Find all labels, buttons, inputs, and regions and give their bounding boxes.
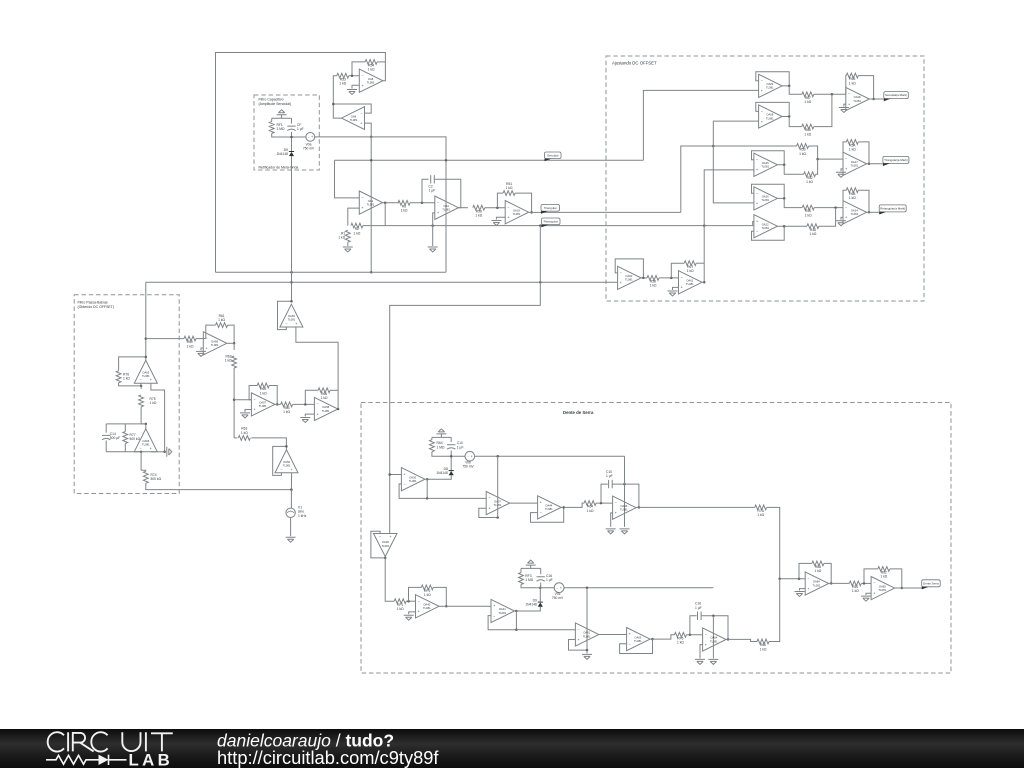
wire OA4 output xyxy=(458,207,468,209)
wire to OA1 inverting input xyxy=(335,160,360,198)
svg-text:OA41: OA41 xyxy=(499,607,506,611)
svg-text:+: + xyxy=(150,447,152,451)
wire R64b to OA58 xyxy=(293,403,315,405)
wire R61 right down xyxy=(228,325,235,343)
junction OA41 output xyxy=(515,610,518,613)
wire OA65 minus stub xyxy=(140,383,142,386)
svg-text:1 kΩ: 1 kΩ xyxy=(424,593,431,597)
svg-text:1N4148: 1N4148 xyxy=(436,471,448,475)
wire OA1 output down to retangular net xyxy=(384,203,386,226)
wire R1 to ground xyxy=(347,242,349,246)
junction main vertical / DC bus xyxy=(290,281,293,284)
op-amp OA24 xyxy=(843,201,867,224)
svg-text:+: + xyxy=(761,120,763,124)
op-amp OA68 xyxy=(203,332,227,355)
wire tap down to OA26 plus xyxy=(713,146,754,203)
svg-text:TL081: TL081 xyxy=(288,318,296,322)
svg-text:−: − xyxy=(578,628,580,632)
svg-text:TL081: TL081 xyxy=(381,544,389,548)
svg-text:TL081: TL081 xyxy=(409,479,417,483)
svg-text:+: + xyxy=(560,586,562,590)
wire R77 top stub xyxy=(124,424,126,432)
resistor R77 xyxy=(123,432,141,444)
wire R54 left to OA8 inverting input xyxy=(352,62,365,76)
wire to R7A xyxy=(639,506,755,508)
junction plus rail bottom xyxy=(163,451,166,454)
wire OA61 output stub xyxy=(702,281,704,283)
wire OA27 plus to ground xyxy=(841,169,843,171)
op-amp OA19 xyxy=(505,201,528,224)
stub xyxy=(636,506,639,508)
diode D9 xyxy=(525,598,543,606)
wire V0b rail down to ground xyxy=(624,456,626,527)
wire R61 left xyxy=(206,325,216,339)
junction OA58 output xyxy=(337,408,340,411)
svg-text:-: - xyxy=(308,135,309,139)
wire OA24 output to flag xyxy=(867,211,880,213)
stub xyxy=(540,568,542,574)
wire OA22 output to R48 xyxy=(784,225,807,227)
svg-text:500 kΩ: 500 kΩ xyxy=(130,437,141,441)
wire OA56 feedback loop xyxy=(273,446,287,475)
svg-text:OA28: OA28 xyxy=(854,95,861,99)
svg-text:TL081: TL081 xyxy=(850,164,858,168)
svg-text:Dente de Serra: Dente de Serra xyxy=(563,410,594,415)
svg-text:−: − xyxy=(488,496,490,500)
wire OA28 output to flag xyxy=(869,98,884,100)
svg-text:−: − xyxy=(404,483,406,487)
junction OA08 output xyxy=(384,557,387,560)
wire to R63 xyxy=(234,437,237,439)
junction OA58 input xyxy=(304,403,307,406)
op-amp OA4 xyxy=(435,196,459,219)
svg-text:+: + xyxy=(845,216,847,220)
title Filtro Passa-Baixas xyxy=(78,300,115,308)
title Filtro Capacitivo xyxy=(259,97,292,105)
svg-text:1 kΩ: 1 kΩ xyxy=(757,513,764,517)
resistor R60 xyxy=(184,336,196,348)
svg-text:Filtro Passa-Baixas: Filtro Passa-Baixas xyxy=(78,300,108,304)
wire OA20 buffer loop xyxy=(399,479,427,498)
svg-text:OA09: OA09 xyxy=(766,113,773,117)
svg-text:1 kΩ: 1 kΩ xyxy=(283,410,290,414)
svg-text:OA40: OA40 xyxy=(423,603,430,607)
diode D8 xyxy=(436,467,454,475)
wire OA41 buffer loop xyxy=(488,611,516,630)
svg-text:1N4148: 1N4148 xyxy=(525,603,537,607)
net flag Senoidal xyxy=(545,152,562,161)
svg-text:http://circuitlab.com/c9ty89f: http://circuitlab.com/c9ty89f xyxy=(217,747,439,768)
junction OA69 apex xyxy=(290,300,293,303)
wire R62b right down xyxy=(890,569,902,588)
op-amp OA63 xyxy=(627,628,651,651)
wire to OA61b minus xyxy=(516,629,575,631)
svg-text:TL081: TL081 xyxy=(283,463,291,467)
capacitor C10 xyxy=(606,470,613,488)
wire OA41 output to D9b xyxy=(516,607,540,611)
svg-text:TL081: TL081 xyxy=(761,165,769,169)
svg-text:OA61: OA61 xyxy=(686,279,693,283)
ground at OA58 xyxy=(300,418,310,423)
svg-text:+: + xyxy=(620,281,622,285)
wire R65 right down xyxy=(858,76,873,99)
wire OA68 output stub xyxy=(227,342,234,344)
capacitor C10 xyxy=(447,441,463,449)
resistor R76 xyxy=(116,371,130,383)
svg-text:OA63: OA63 xyxy=(634,635,641,639)
wire filter output to V1 node xyxy=(146,483,292,489)
resistor R51 xyxy=(503,182,515,196)
junction OA20 output xyxy=(426,478,429,481)
junction OA19 output xyxy=(530,211,533,214)
svg-text:1 kΩ: 1 kΩ xyxy=(187,344,194,348)
junction mixer input xyxy=(778,578,781,581)
ground at OA6A xyxy=(795,592,805,597)
junction OA56 apex xyxy=(285,445,288,448)
svg-text:Dente Serra: Dente Serra xyxy=(923,581,939,585)
op-amp OA57 xyxy=(251,393,275,416)
junction on retangular rail xyxy=(388,473,391,476)
svg-text:OA61: OA61 xyxy=(583,631,590,635)
svg-text:−: − xyxy=(507,205,509,209)
wire retangular riser down to OA61 xyxy=(703,226,705,283)
junction senoidal tap 2 xyxy=(445,159,448,162)
resistor R2 xyxy=(351,223,363,235)
svg-text:−: − xyxy=(361,74,363,78)
net flag Triangular(a Mark) xyxy=(883,156,909,166)
stub xyxy=(515,610,517,612)
op-amp OA60 xyxy=(618,266,642,289)
junction filter tap to R60 xyxy=(145,337,148,340)
svg-text:750 mV: 750 mV xyxy=(303,147,315,151)
junction OA65 loop top xyxy=(145,356,148,359)
svg-text:OA9: OA9 xyxy=(351,114,357,118)
net flag Senoidal(a Mark) xyxy=(884,92,909,102)
dashed box Ajustando DC OFFSET xyxy=(606,56,924,301)
resistor R50 xyxy=(802,205,814,217)
junction OA9 loop top xyxy=(332,103,335,106)
op-amp OA56 xyxy=(275,450,298,473)
svg-text:TL081: TL081 xyxy=(813,583,821,587)
junction OA61 feedback xyxy=(670,277,673,280)
wire ground stem xyxy=(281,115,283,119)
resistor R64 xyxy=(430,440,445,452)
svg-text:OA24: OA24 xyxy=(851,209,858,213)
wire V0c rail to ground xyxy=(712,616,714,659)
svg-text:1 kΩ: 1 kΩ xyxy=(353,231,360,235)
svg-text:Triangular(a Mark): Triangular(a Mark) xyxy=(884,158,908,162)
wire R67b left xyxy=(671,263,684,278)
ground 1 at OA46 xyxy=(606,529,616,534)
svg-text:OA29: OA29 xyxy=(766,82,773,86)
svg-text:−: − xyxy=(317,402,319,406)
wire R60 to OA68 xyxy=(196,338,203,340)
wire OA20 to OA07 minus xyxy=(427,497,486,499)
svg-text:+: + xyxy=(756,219,758,223)
wire RF6 to OA64b xyxy=(686,634,702,636)
junction triangular tap xyxy=(712,145,715,148)
wire OA64b output to R66b xyxy=(726,639,757,641)
wire R77 bottom stub xyxy=(124,444,126,452)
wire OA24 plus to ground xyxy=(841,217,843,219)
svg-text:1 kΩ: 1 kΩ xyxy=(849,196,856,200)
resistor R54 xyxy=(365,60,377,72)
svg-text:+: + xyxy=(150,378,152,382)
wire Retangular net xyxy=(363,222,754,226)
capacitor C16 xyxy=(695,602,702,620)
op-amp OA61 xyxy=(679,271,703,294)
svg-text:1 kΩ: 1 kΩ xyxy=(321,396,328,400)
wire RF1 top stub xyxy=(271,118,273,121)
junction OA44 output xyxy=(562,506,565,509)
svg-text:1 kHz: 1 kHz xyxy=(298,514,307,518)
svg-text:−: − xyxy=(620,271,622,275)
op-amp OA41 xyxy=(491,599,515,622)
wire OA22 buffer loop xyxy=(752,226,785,240)
wire OA57 output xyxy=(275,403,281,405)
wire OA08 buffer loop xyxy=(371,531,385,558)
svg-text:OA25: OA25 xyxy=(762,161,769,165)
svg-text:1N4148: 1N4148 xyxy=(276,152,288,156)
wire OA24 feedback left xyxy=(843,190,846,207)
resistor R67 xyxy=(684,261,696,273)
svg-text:1 kΩ: 1 kΩ xyxy=(849,81,856,85)
svg-text:TL081: TL081 xyxy=(710,639,718,643)
wire R63 to OA56 apex xyxy=(251,438,286,450)
op-amp OA08 xyxy=(374,534,398,557)
svg-text:(Obtendo DC OFFSET): (Obtendo DC OFFSET) xyxy=(78,305,115,309)
wire R6A left xyxy=(799,563,812,578)
wire R53 left down to OA9 loop xyxy=(333,76,337,104)
svg-text:TL081: TL081 xyxy=(583,634,591,638)
svg-text:OA6A: OA6A xyxy=(813,580,820,584)
svg-text:TL081: TL081 xyxy=(142,442,150,446)
svg-text:Retificador de Meia-Onda: Retificador de Meia-Onda xyxy=(259,165,299,169)
ground at OA19 xyxy=(491,221,501,226)
logo resistor-diode symbol xyxy=(46,755,127,765)
wire R52 up to sum node xyxy=(816,159,818,174)
svg-text:TL081: TL081 xyxy=(853,99,861,103)
svg-text:−: − xyxy=(418,599,420,603)
svg-text:+: + xyxy=(488,506,490,510)
op-amp OA66 xyxy=(134,429,157,452)
ground at OA65b xyxy=(861,596,871,601)
wire R58 to OA19 xyxy=(485,207,505,209)
svg-text:1 kΩ: 1 kΩ xyxy=(150,401,157,405)
svg-text:1 kΩ: 1 kΩ xyxy=(260,391,267,395)
svg-text:TL081: TL081 xyxy=(259,404,267,408)
svg-text:OA58: OA58 xyxy=(322,405,329,409)
net flag Triangular xyxy=(541,205,560,214)
resistor R66 xyxy=(318,388,330,400)
resistor R7A xyxy=(755,505,767,517)
resistor R52 xyxy=(804,172,816,184)
junction loop to bottom chain xyxy=(515,629,518,632)
svg-text:1 kΩ: 1 kΩ xyxy=(852,589,859,593)
svg-text:OA4: OA4 xyxy=(443,204,449,208)
wire OA44 to R64c xyxy=(564,503,584,507)
wire R76 loop bottom xyxy=(119,383,142,386)
junction OA40 output xyxy=(445,605,448,608)
source V0a xyxy=(303,133,315,151)
stub xyxy=(384,557,386,558)
wire OA27 feedback left xyxy=(843,142,846,159)
junction OA61 output xyxy=(703,281,706,284)
wire C10d right down xyxy=(701,616,728,640)
op-amp OA44 xyxy=(538,496,562,519)
op-amp OA61 xyxy=(575,623,599,646)
wire OA26 buffer loop xyxy=(752,184,785,198)
wire R75 bottom xyxy=(141,407,146,424)
resistor R58 xyxy=(647,276,659,288)
svg-text:1 kΩ: 1 kΩ xyxy=(338,236,345,240)
svg-text:Filtro Capacitivo: Filtro Capacitivo xyxy=(259,97,284,101)
wire OA27 output to flag xyxy=(867,163,883,165)
svg-text:1 kΩ: 1 kΩ xyxy=(799,152,806,156)
wire OA07 to OA44 xyxy=(510,502,538,504)
svg-text:1 kΩ: 1 kΩ xyxy=(218,318,225,322)
wire OA9 plus rail down to bus xyxy=(370,137,372,272)
svg-text:−: − xyxy=(280,468,282,472)
op-amp OA6A xyxy=(805,572,829,595)
wire OA28 plus to ground xyxy=(844,104,846,106)
junction DC-offset riser xyxy=(703,224,706,227)
wire D8 to OA20 output xyxy=(427,475,451,479)
resistor R65 xyxy=(846,73,858,85)
junction V0b node xyxy=(450,455,453,458)
ground at OA24 xyxy=(836,221,846,226)
svg-text:TL081: TL081 xyxy=(423,606,431,610)
wire OA40 to OA41 xyxy=(446,605,491,607)
svg-text:−: − xyxy=(848,92,850,96)
resistor R62 xyxy=(878,567,890,579)
wire OA4 plus down to ground xyxy=(433,213,435,246)
wire OA66 apex up xyxy=(145,424,147,429)
svg-text:−: − xyxy=(140,378,142,382)
wire R76 loop top xyxy=(119,357,146,371)
svg-text:1 µF: 1 µF xyxy=(546,578,553,582)
wire OA40 plus to ground xyxy=(409,612,416,614)
op-amp OA22 xyxy=(754,215,778,238)
wire OA8 feedback loop xyxy=(216,53,386,273)
op-amp OA20 xyxy=(401,468,425,491)
wire OA8 plus to ground xyxy=(352,85,359,88)
wire R66 up to sum node xyxy=(814,94,832,126)
svg-text:1 kΩ: 1 kΩ xyxy=(650,284,657,288)
op-amp OA26 xyxy=(754,187,778,210)
svg-text:+: + xyxy=(360,121,362,125)
svg-text:TL081: TL081 xyxy=(766,86,774,90)
svg-text:1 kΩ: 1 kΩ xyxy=(806,180,813,184)
svg-text:1 kΩ: 1 kΩ xyxy=(677,641,684,645)
wire RF3-C16 top xyxy=(521,567,541,569)
svg-text:OA8: OA8 xyxy=(368,77,374,81)
wire OA1 plus to node xyxy=(348,208,360,226)
svg-text:OA44: OA44 xyxy=(545,504,552,508)
wire OA09 output down to R66 xyxy=(789,117,802,127)
svg-text:+: + xyxy=(317,412,319,416)
ground at OA57 xyxy=(240,413,250,418)
ground at OA40 xyxy=(404,615,414,620)
wire DC offset bus xyxy=(146,281,618,283)
svg-text:TL081: TL081 xyxy=(350,118,358,122)
resistor R6A xyxy=(812,561,824,573)
op-amp OA09 xyxy=(759,105,783,128)
wire OA60 buffer loop xyxy=(615,259,643,278)
ground at OA27 xyxy=(836,172,846,177)
wire R7A down to mixer xyxy=(767,507,780,578)
ground at OA8 xyxy=(347,90,357,95)
junction senoidal tap 1 xyxy=(370,159,373,162)
svg-text:+: + xyxy=(756,202,758,206)
junction OA09 output xyxy=(788,115,791,118)
wire R62b left xyxy=(864,569,878,584)
wire OA6A output to R61b xyxy=(829,582,850,584)
svg-text:−: − xyxy=(493,614,495,618)
junction loop to OA07 xyxy=(426,497,429,500)
wire R6A right down xyxy=(824,563,831,583)
wire D9 to bus and OA69 xyxy=(291,156,293,301)
junction OA28 output xyxy=(872,98,875,101)
stem xyxy=(586,650,588,653)
op-amp OA1 xyxy=(359,191,382,214)
ground at OA68 xyxy=(196,351,206,356)
junction OA24 output xyxy=(868,211,871,214)
svg-text:+: + xyxy=(873,591,875,595)
junction OA66 minus xyxy=(140,451,143,454)
junction sum node 2 xyxy=(816,158,819,161)
junction OA65b feedback xyxy=(863,582,866,585)
wire jog to R74 xyxy=(141,470,146,471)
junction sum node 3 xyxy=(834,206,837,209)
svg-text:1 µF: 1 µF xyxy=(429,189,436,193)
svg-text:TL081: TL081 xyxy=(634,639,642,643)
svg-text:TL081: TL081 xyxy=(879,588,887,592)
junction OA22 output xyxy=(783,225,786,228)
wire retangular to sawtooth section xyxy=(390,226,541,534)
wire OA09 buffer loop xyxy=(756,102,789,116)
wire to R75 xyxy=(140,386,142,389)
wire D9b up xyxy=(539,588,541,602)
net flag Retangular xyxy=(542,218,561,227)
svg-text:TL081: TL081 xyxy=(620,508,628,512)
svg-text:OA69: OA69 xyxy=(288,314,295,318)
ground below V1 xyxy=(286,537,296,542)
svg-text:1 kΩ: 1 kΩ xyxy=(368,68,375,72)
resistor R74 xyxy=(143,471,161,483)
wire to R62 xyxy=(233,343,235,350)
wire R62 down xyxy=(233,368,235,438)
svg-text:+: + xyxy=(471,454,473,458)
svg-text:1 kΩ: 1 kΩ xyxy=(880,575,887,579)
junction V1 node xyxy=(290,488,293,491)
resistor R64 xyxy=(584,501,596,513)
resistor R67 xyxy=(802,92,814,104)
svg-text:−: − xyxy=(873,581,875,585)
svg-text:−: − xyxy=(360,111,362,115)
wire OA68 plus to ground xyxy=(201,348,203,350)
wire RF1-CF top xyxy=(272,117,292,119)
junction OA07 rail xyxy=(496,455,499,458)
svg-text:OA66: OA66 xyxy=(142,439,149,443)
svg-text:1 kΩ: 1 kΩ xyxy=(506,186,513,190)
resistor R58 xyxy=(473,205,485,217)
svg-text:1 kΩ: 1 kΩ xyxy=(241,431,248,435)
svg-text:OA22: OA22 xyxy=(762,222,769,226)
wire R58b to OA61 xyxy=(659,277,679,279)
wire R64c to OA46 xyxy=(596,502,613,504)
wire C2 right to OA4 output xyxy=(435,179,461,207)
